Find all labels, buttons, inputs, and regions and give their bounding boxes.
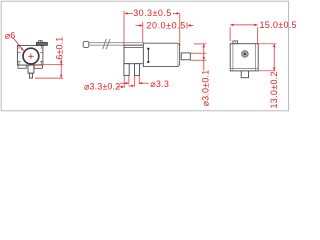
dim 20.0±0.5 left arrow: [140, 24, 143, 26]
back body: [230, 44, 258, 71]
svg-text:6±0.1: 6±0.1: [55, 37, 65, 60]
adjuster head: [83, 41, 89, 47]
stroke double arrow: [147, 48, 149, 62]
leg extension 1: [123, 75, 125, 87]
leg extension 3: [134, 75, 136, 86]
dim 20.0±0.5 right tick: [186, 22, 188, 29]
coil circle: [23, 48, 39, 64]
leg pin 1: [124, 64, 129, 76]
dim 4.0±0.1 arrow bottom: [203, 57, 205, 60]
valve front block: [124, 45, 143, 64]
break symbol: [103, 39, 110, 49]
dim 20.0±0.5 right arrow: [187, 24, 190, 26]
dim 4.0±0.1 line: [203, 44, 205, 71]
coil body: [143, 43, 179, 66]
svg-text:13.0±0.2: 13.0±0.2: [269, 71, 279, 108]
dim 15.0±0.5 arrow right: [254, 24, 257, 26]
body corner step lines: [19, 45, 41, 65]
dim 15.0±0.5 left extension: [229, 27, 231, 42]
center dot: [30, 56, 31, 57]
shaft: [89, 43, 144, 46]
leg dim arrow c: [128, 85, 132, 87]
dim 6±0.1 extension bottom: [35, 77, 63, 79]
body bottom flange left: [18, 65, 26, 68]
back bump dot: [235, 42, 236, 43]
body bottom flange right: [34, 65, 42, 68]
dim 20.0±0.5 left arrow line: [136, 25, 140, 27]
back top bump: [233, 41, 238, 44]
leg extension 2: [128, 75, 130, 84]
dim 6±0.1 line: [60, 59, 62, 78]
coil body inner edge: [177, 44, 179, 66]
svg-text:30.3±0.5: 30.3±0.5: [133, 8, 172, 18]
nozzle tip: [30, 73, 33, 78]
leg pin 2: [135, 64, 140, 76]
svg-text:20.0±0.5: 20.0±0.5: [146, 20, 185, 30]
dim 4.0±0.1 extension bottom: [191, 59, 207, 61]
dim 15.0±0.5 arrow left: [230, 24, 233, 26]
dim 6±0.1 arrow upper: [60, 61, 62, 64]
body side seam stubs: [17, 52, 43, 61]
svg-text:⌀3.3±0.2: ⌀3.3±0.2: [84, 81, 120, 91]
svg-text:⌀3.0±0.1: ⌀3.0±0.1: [200, 70, 210, 107]
dim 15.0±0.5 right extension: [257, 27, 259, 44]
back body inner right edge: [255, 44, 257, 71]
dim 4.0±0.1 arrow top: [203, 44, 205, 47]
dim 13.0±0.2 arrow bottom: [273, 68, 275, 71]
dim 13.0±0.2 extension bottom: [259, 70, 276, 72]
nozzle upper: [28, 65, 34, 73]
dim 30.3±0.5 line left: [127, 12, 133, 14]
dim 13.0±0.2 arrow top: [273, 44, 275, 47]
dim 4.0±0.1 extension top: [194, 43, 206, 45]
dim 30.3±0.5 arrow left: [124, 12, 127, 14]
dim 20.0±0.5 left extension: [142, 22, 144, 42]
svg-text:⌀3.3: ⌀3.3: [150, 79, 169, 89]
leader line: [13, 37, 24, 50]
leg extension 4: [138, 75, 140, 84]
rear tab: [181, 53, 190, 60]
dim 4.0±0.1 extension mid: [191, 52, 207, 54]
dim 30.3±0.5 left extension: [123, 11, 125, 45]
dim 6±0.1 extension top: [33, 64, 63, 66]
dim 13.0±0.2 line: [273, 44, 275, 71]
svg-text:15.0±0.5: 15.0±0.5: [260, 20, 297, 30]
dim 6±0.1 arrow lower: [60, 75, 62, 78]
front block inner line: [124, 46, 143, 48]
dim 30.3±0.5 right extension: [179, 13, 181, 46]
border frame: [1, 1, 288, 111]
dim 30.3±0.5 line right: [173, 12, 177, 14]
dim 15.0±0.5 line: [230, 24, 258, 26]
dim 20.0±0.5 right arrow tail: [191, 25, 194, 27]
bottom tab: [241, 71, 248, 78]
dia3.3±0.2 leader: [118, 86, 122, 88]
connector bump: [39, 41, 43, 43]
knurled screw center: [244, 53, 246, 55]
back body inner left edge: [232, 44, 234, 71]
center cross: [28, 54, 34, 60]
connector block: [36, 43, 47, 46]
leg dim arrow a: [120, 82, 126, 84]
back body inner bottom line: [230, 68, 258, 70]
leader arrowhead: [21, 48, 24, 52]
leg dim arrow b: [139, 82, 142, 84]
svg-text:⌀6: ⌀6: [5, 31, 15, 41]
connector bump dot: [40, 41, 41, 42]
dim 30.3±0.5 arrow right: [177, 12, 180, 14]
dim 13.0±0.2 extension top: [259, 43, 277, 45]
valve body front: [17, 45, 43, 65]
knurled screw: [242, 51, 249, 58]
